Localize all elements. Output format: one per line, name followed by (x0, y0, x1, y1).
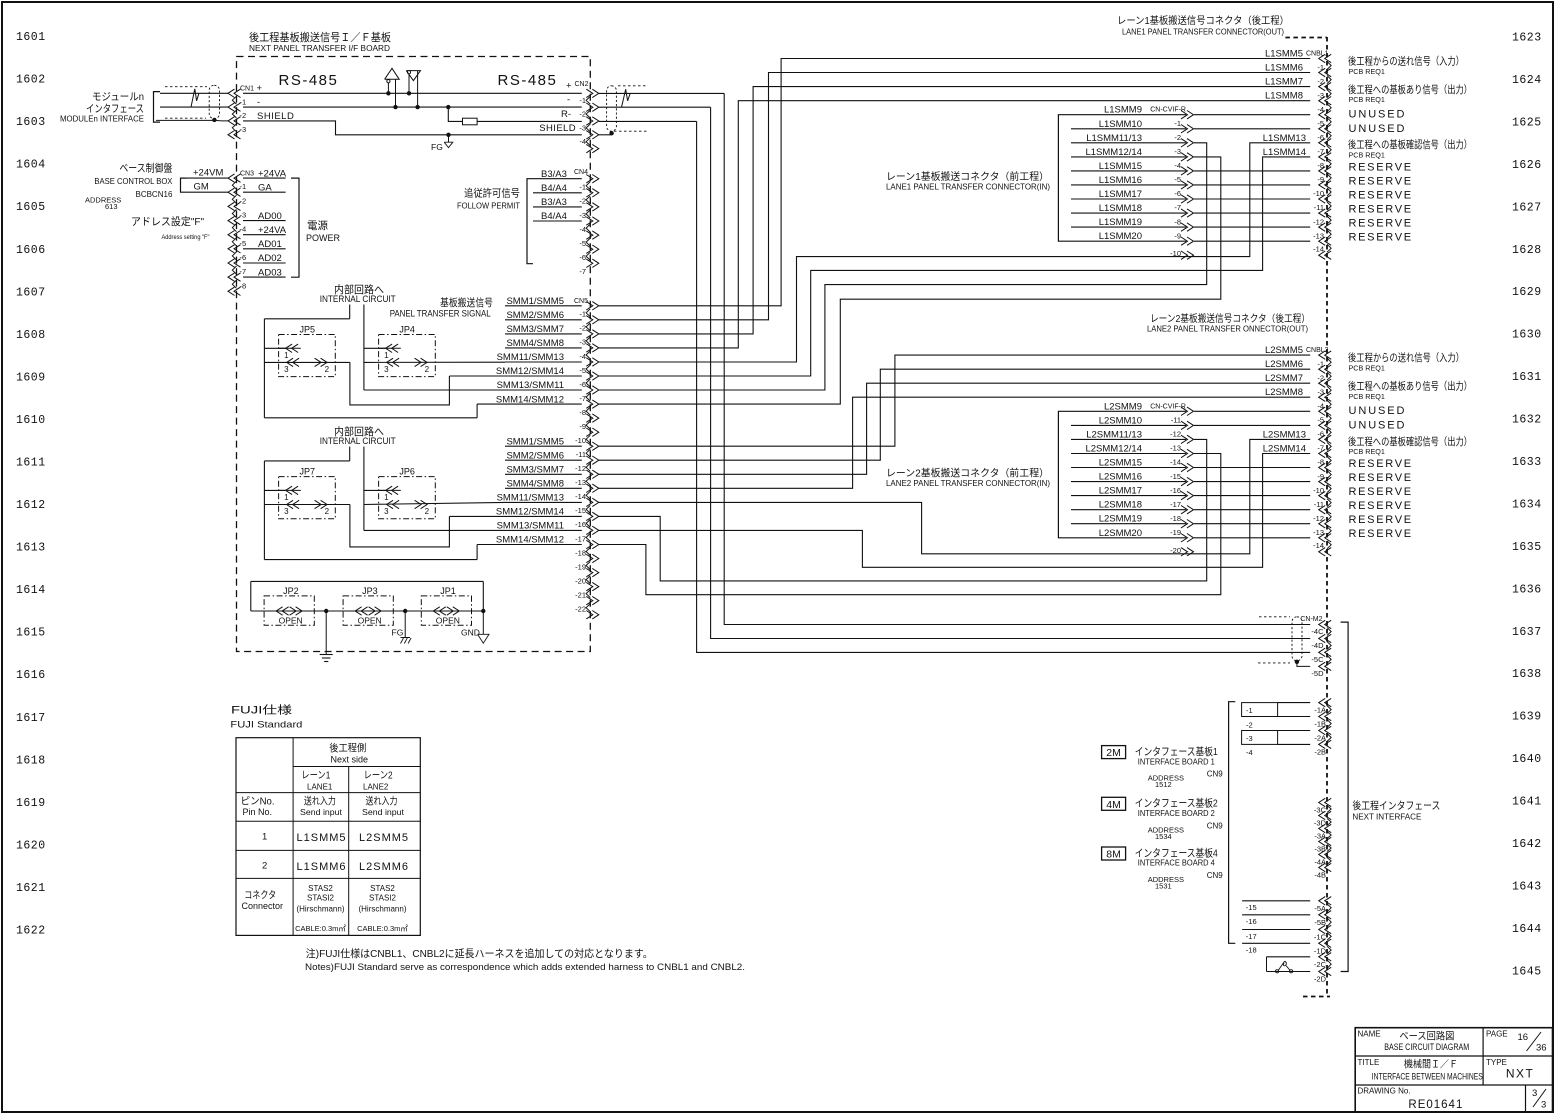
svg-text:-19: -19 (575, 562, 586, 571)
connector CNBL1 body segment (1327, 202, 1331, 210)
svg-text:-4: -4 (1317, 402, 1324, 411)
connector CNBL2 body segment (1327, 527, 1331, 535)
svg-text:RESERVE: RESERVE (1349, 500, 1413, 512)
GND arrow ground (482, 611, 484, 634)
svg-text:-2: -2 (1246, 720, 1253, 729)
svg-text:-2B: -2B (1314, 747, 1326, 756)
svg-text:電源: 電源 (307, 219, 328, 232)
connector CNBL1 pin row 6 (1319, 139, 1326, 147)
svg-text:L2SMM8: L2SMM8 (1265, 387, 1303, 398)
connector CN5 pin row 18 (592, 554, 599, 562)
connector CNBL2 body segment (1327, 414, 1331, 422)
connector CN9 body segment (1327, 706, 1331, 714)
svg-text:FUJI仕様: FUJI仕様 (231, 703, 292, 717)
connector CNBL1 pin row 7 (1319, 153, 1326, 161)
connector CNBL2 pin row 9 (1319, 477, 1326, 485)
connector CNBL2 pin row 12 (1319, 520, 1326, 528)
cable sheath dashed left (165, 86, 207, 88)
svg-text:-8: -8 (1174, 217, 1181, 226)
connector CN2 pin row 4 (592, 144, 599, 152)
svg-text:後工程への基板確認信号（出力）: 後工程への基板確認信号（出力） (1348, 435, 1472, 448)
svg-text:1635: 1635 (1512, 541, 1542, 554)
right margin line numbers 1623-1645 (1512, 32, 1542, 979)
svg-text:B4/A4: B4/A4 (541, 211, 567, 222)
wire JP4 pin1 feed (364, 347, 386, 349)
wire CN-CVIF-R row 4 (1071, 467, 1186, 469)
svg-text:RESERVE: RESERVE (1349, 175, 1413, 187)
wire CN5 SMM11/SMM13 (505, 361, 582, 363)
svg-text:RESERVE: RESERVE (1349, 204, 1413, 216)
svg-text:RS-485: RS-485 (279, 72, 339, 89)
wire lane1 SMM2/SMM6 CN5 to CNBL1 (599, 73, 1310, 320)
wire CN-CVIF-R row 7 (1071, 509, 1186, 511)
svg-text:OPEN: OPEN (436, 616, 460, 626)
junction dot cable shield left (212, 118, 216, 122)
svg-text:1638: 1638 (1512, 668, 1542, 681)
svg-text:1611: 1611 (16, 457, 46, 470)
svg-text:4M: 4M (1106, 799, 1121, 811)
wire lane1 SMM4/SMM8 CN5 to CNBL1 (599, 101, 1310, 348)
svg-text:INTERNAL CIRCUIT: INTERNAL CIRCUIT (320, 436, 396, 446)
svg-text:1606: 1606 (16, 244, 46, 257)
interface board box 8M (1102, 847, 1126, 860)
jumper JP6 pin1 arrows (379, 489, 401, 491)
wire CN-CVIF-R row 1 (1071, 424, 1186, 426)
connector CN3 body segment (232, 252, 236, 260)
svg-text:-4: -4 (1174, 161, 1181, 170)
junction dot FG tap (446, 133, 450, 137)
svg-text:1: 1 (284, 493, 289, 502)
connector CNBL1 pin row 3 (1319, 97, 1326, 105)
cable oval left (209, 85, 219, 118)
wire JP5 pin1 feed (264, 347, 286, 349)
svg-text:-22: -22 (575, 605, 586, 614)
svg-text:-3: -3 (579, 338, 586, 347)
svg-text:1636: 1636 (1512, 583, 1542, 596)
earth ground symbol (325, 611, 327, 655)
connector CN3 body segment (232, 209, 236, 217)
connector CN4 body segment (586, 224, 590, 232)
wire to resistor (448, 107, 462, 121)
wire gnd rail right drop (482, 581, 484, 611)
wire CN5 SMM1/SMM5 lane2 (505, 445, 582, 447)
connector CN3 pin row 5 (228, 245, 235, 253)
svg-text:CN2: CN2 (575, 81, 589, 88)
svg-text:-14: -14 (1170, 458, 1181, 467)
wire lane2 SMM14/SMM12 to L2SMM12/14 (599, 454, 1221, 595)
connector CN-CVIF-R pin (1187, 181, 1194, 189)
svg-text:-11: -11 (1314, 500, 1324, 509)
svg-text:-2: -2 (1317, 373, 1324, 382)
connector CN9 body segment (1327, 933, 1331, 941)
next panel transfer I/F board dashed outline (237, 57, 591, 652)
svg-text:-19: -19 (1170, 528, 1181, 537)
svg-text:1616: 1616 (16, 669, 46, 682)
svg-text:1617: 1617 (16, 712, 46, 725)
svg-text:-3C: -3C (1314, 806, 1327, 815)
svg-text:-10: -10 (1313, 189, 1324, 198)
svg-text:JP2: JP2 (283, 586, 299, 596)
wire CN-CVIF-R row 3 (1071, 156, 1186, 158)
svg-text:1612: 1612 (16, 499, 46, 512)
svg-text:1: 1 (384, 493, 389, 502)
svg-text:-1: -1 (579, 96, 586, 105)
svg-text:RESERVE: RESERVE (1349, 514, 1413, 526)
wire RS485 - rail (243, 106, 582, 108)
wire +24VM (187, 177, 229, 179)
svg-text:L1SMM17: L1SMM17 (1099, 189, 1142, 200)
connector CN5 body segment (586, 562, 590, 570)
connector CN2 body segment (586, 138, 590, 146)
connector CN9 pin 0 (1319, 698, 1326, 706)
wire lane1 SMM11/SMM13 to L1SMM13 (599, 143, 1310, 362)
svg-text:1642: 1642 (1512, 838, 1542, 851)
svg-text:-12: -12 (1313, 217, 1324, 226)
connector CN-CVIF-R pin (1187, 209, 1194, 217)
svg-text:3: 3 (284, 507, 289, 516)
svg-text:LANE1 PANEL TRANSFER CONNECTOR: LANE1 PANEL TRANSFER CONNECTOR(OUT) (1122, 27, 1284, 37)
svg-text:モジュールn: モジュールn (92, 91, 144, 103)
connector CN3 pin row 4 (228, 231, 235, 239)
wire CN5 SMM4/SMM8 (505, 347, 582, 349)
svg-text:L1SMM6: L1SMM6 (1265, 63, 1303, 74)
connector CN9 body segment (1327, 819, 1331, 826)
svg-text:MODULEn INTERFACE: MODULEn INTERFACE (60, 114, 144, 124)
wire lane2 SMM12/SMM14 to L2SMM11/13 (599, 439, 1207, 581)
connector CNBL2 body segment (1327, 372, 1331, 380)
connector CN9 body segment (1327, 832, 1331, 839)
connector CN2 pin row 0 (592, 89, 599, 97)
svg-text:-8: -8 (1317, 458, 1324, 467)
wire CN-CVIF-R row 4 (1071, 170, 1186, 172)
svg-text:1626: 1626 (1512, 159, 1542, 172)
connector CN-M2 pin 1 (1319, 634, 1326, 642)
svg-text:-2: -2 (240, 196, 247, 205)
wire CN-CVIF-R row 3 (1071, 453, 1186, 455)
connector CN5 body segment (586, 590, 590, 598)
resistor R1 (463, 118, 478, 125)
jumper JP5 pin3 arrows (287, 358, 294, 366)
connector CN5 body segment (586, 365, 590, 373)
wire CN-CVIF-R row 0 (1071, 114, 1186, 116)
connector CN9 low pin 4 (1319, 953, 1326, 961)
connector CN5 pin row 3 (592, 344, 599, 352)
wire lane2 SMM11/SMM13 to L2SMM13 (599, 439, 1310, 553)
svg-text:SMM4/SMM8: SMM4/SMM8 (506, 479, 564, 490)
svg-text:-3A: -3A (1314, 832, 1326, 841)
wire CN-CVIF-R row 6 (1071, 198, 1186, 200)
wire row 8 to CNBL1 (1194, 170, 1310, 172)
svg-text:JP1: JP1 (440, 586, 456, 596)
svg-text:613: 613 (105, 202, 118, 211)
connector CN5 body segment (586, 449, 590, 457)
svg-text:-1: -1 (240, 182, 247, 191)
svg-text:L1SMM6: L1SMM6 (297, 861, 347, 873)
svg-text:-13: -13 (1170, 444, 1181, 453)
svg-text:-1: -1 (1317, 359, 1324, 368)
svg-text:SMM2/SMM6: SMM2/SMM6 (506, 310, 564, 321)
wire row 13 to CNBL1 (1194, 240, 1310, 242)
wire CN2 shield external (599, 134, 612, 136)
connector CN-CVIF-R pin (1187, 153, 1194, 161)
wire row 8 to CNBL2 (1194, 467, 1310, 469)
svg-text:1641: 1641 (1512, 796, 1542, 809)
svg-text:FOLLOW PERMIT: FOLLOW PERMIT (457, 201, 520, 211)
svg-text:INTERFACE BOARD 2: INTERFACE BOARD 2 (1138, 808, 1215, 818)
wire CN5 SMM14/SMM12 (477, 403, 582, 405)
connector CN9 pin 1 (1319, 712, 1326, 720)
connector CN-CVIF-R pin (1187, 223, 1194, 231)
interface board box 4M (1102, 797, 1126, 810)
svg-text:3: 3 (1541, 1100, 1546, 1111)
connector CN4 body segment (586, 182, 590, 190)
svg-text:Next side: Next side (331, 755, 369, 765)
connector CN5 pin row 5 (592, 372, 599, 380)
svg-text:CN1: CN1 (240, 86, 254, 93)
svg-text:レーン2: レーン2 (364, 771, 393, 782)
svg-text:-2: -2 (240, 111, 247, 120)
wire CN5 SMM12/SMM14 (449, 375, 581, 377)
svg-text:-5: -5 (1174, 175, 1181, 184)
svg-text:-20: -20 (1170, 546, 1181, 555)
svg-text:L1SMM7: L1SMM7 (1265, 77, 1303, 88)
connector CN5 body segment (586, 463, 590, 471)
svg-text:UNUSED: UNUSED (1349, 419, 1407, 431)
jumper JP5 pin2 arrows (321, 358, 328, 366)
svg-text:-5B: -5B (1314, 918, 1326, 927)
connector CNBL1 body segment (1327, 244, 1331, 252)
svg-text:1: 1 (384, 351, 389, 360)
wire CN5 SMM12/SMM14 lane2 (449, 515, 581, 517)
svg-text:RESERVE: RESERVE (1349, 486, 1413, 498)
svg-text:RESERVE: RESERVE (1349, 472, 1413, 484)
svg-text:-10: -10 (1170, 249, 1181, 258)
connector CN4 pin row 1 (592, 189, 599, 197)
bracket CN4 group (527, 179, 533, 264)
svg-text:CN4: CN4 (574, 169, 588, 176)
connector CN-CVIF-R pin (1187, 139, 1194, 147)
svg-text:-1: -1 (1317, 63, 1324, 72)
svg-text:-7: -7 (1317, 147, 1324, 156)
svg-text:L2SMM9: L2SMM9 (1104, 401, 1142, 412)
svg-text:-3: -3 (1317, 387, 1324, 396)
svg-text:L1SMM19: L1SMM19 (1099, 217, 1142, 228)
wire RS485 + to CN-M2 (724, 93, 1310, 624)
wire rail riser to SMM14/SMM12 (476, 404, 478, 418)
connector CNBL2 pin row 2 (1319, 379, 1326, 387)
svg-text:1608: 1608 (16, 329, 46, 342)
svg-text:STASI2: STASI2 (307, 894, 335, 903)
wire lane2 SMM1/SMM5 CN5 to CNBL2 (599, 355, 1310, 446)
svg-text:L2SMM5: L2SMM5 (1265, 345, 1303, 356)
connector CNBL2 body segment (1327, 442, 1331, 450)
connector CN-CVIF-R pin (1187, 534, 1194, 543)
svg-text:INTERFACE BOARD 1: INTERFACE BOARD 1 (1138, 756, 1215, 766)
svg-text:-: - (567, 94, 570, 105)
connector CNBL2 pin row 1 (1319, 365, 1326, 373)
connector CNBL1 body segment (1327, 188, 1331, 196)
svg-text:レーン1: レーン1 (301, 771, 330, 782)
connector CN9 low pin 2 (1319, 925, 1326, 933)
svg-text:後工程への基板あり信号（出力）: 後工程への基板あり信号（出力） (1348, 83, 1472, 96)
svg-text:SMM4/SMM8: SMM4/SMM8 (506, 338, 564, 349)
svg-text:送れ入力: 送れ入力 (304, 795, 336, 808)
wire lane1 SMM1/SMM5 CN5 to CNBL1 (599, 59, 1310, 306)
connector CNBL1 pin row 10 (1319, 195, 1326, 203)
svg-text:SMM3/SMM7: SMM3/SMM7 (506, 465, 564, 476)
svg-text:NEXT PANEL TRANSFER I/F BOARD: NEXT PANEL TRANSFER I/F BOARD (249, 43, 390, 53)
wire resistor to CN2 R- (477, 120, 582, 122)
svg-text:-11: -11 (1171, 416, 1181, 425)
svg-text:1602: 1602 (16, 74, 46, 87)
wire CN2 - external (599, 106, 711, 108)
connector CNBL2 body segment (1327, 471, 1331, 479)
svg-text:-4: -4 (1246, 748, 1253, 757)
svg-text:-13: -13 (575, 478, 586, 487)
buffer triangle down U2 (406, 71, 420, 81)
svg-text:1607: 1607 (16, 286, 46, 299)
connector CN5 body segment (586, 477, 590, 485)
connector CNBL1 pin row 1 (1319, 68, 1326, 77)
svg-text:追従許可信号: 追従許可信号 (464, 187, 520, 200)
connector CNBL1 pin row 9 (1319, 181, 1326, 189)
wire CN-CVIF-R row 8 (1071, 523, 1186, 525)
connector CN5 body segment (586, 379, 590, 387)
connector CN-CVIF-R pin (1187, 111, 1194, 119)
svg-text:-4: -4 (579, 352, 586, 361)
connector CNBL2 pin row 14 (1319, 548, 1326, 556)
svg-text:L1SMM5: L1SMM5 (297, 832, 347, 844)
svg-text:PAGE: PAGE (1486, 1030, 1508, 1039)
svg-text:-4: -4 (1317, 105, 1324, 114)
svg-text:-15: -15 (575, 506, 586, 515)
svg-text:-2: -2 (1317, 77, 1324, 86)
jumper JP3 arrows (355, 607, 362, 615)
svg-text:JP6: JP6 (399, 466, 415, 476)
svg-text:L2SMM6: L2SMM6 (359, 861, 409, 873)
svg-text:-4B: -4B (1314, 871, 1326, 880)
svg-text:-7: -7 (240, 267, 247, 276)
svg-text:後工程側: 後工程側 (329, 742, 366, 755)
svg-text:-1: -1 (1174, 119, 1181, 128)
svg-text:-6: -6 (1174, 189, 1181, 198)
svg-text:SMM14/SMM12: SMM14/SMM12 (496, 535, 564, 546)
svg-text:1632: 1632 (1512, 414, 1542, 427)
svg-text:-2A: -2A (1314, 734, 1326, 743)
svg-text:PCB REQ1: PCB REQ1 (1349, 364, 1385, 373)
connector CN2 pin row 3 (592, 131, 599, 139)
svg-text:1619: 1619 (16, 797, 46, 810)
connector CN3 body segment (232, 195, 236, 203)
svg-text:1631: 1631 (1512, 371, 1542, 384)
connector CNBL1 body segment (1327, 230, 1331, 238)
svg-text:1639: 1639 (1512, 711, 1542, 724)
wire CN3 +24VA (243, 234, 286, 236)
svg-text:PCB REQ1: PCB REQ1 (1349, 447, 1385, 456)
svg-text:-6: -6 (1317, 133, 1324, 142)
svg-text:-10: -10 (1313, 486, 1324, 495)
svg-text:-3: -3 (240, 211, 247, 220)
wire CN-CVIF-R row 6 (1071, 495, 1186, 497)
junction dot CN-M2 shield (1295, 660, 1299, 664)
jumper JP7 pin2 arrows (321, 500, 328, 508)
svg-text:L2SMM10: L2SMM10 (1099, 415, 1142, 426)
wire internal2 drop A (349, 447, 351, 461)
svg-text:RESERVE: RESERVE (1349, 458, 1413, 470)
svg-text:-2: -2 (579, 197, 586, 206)
svg-text:L2SMM5: L2SMM5 (359, 832, 409, 844)
svg-text:CN-CVIF-R: CN-CVIF-R (1150, 403, 1186, 410)
wire lane2 SMM4/SMM8 CN5 to CNBL2 (599, 397, 1310, 488)
svg-text:R-: R- (561, 109, 571, 120)
svg-text:UNUSED: UNUSED (1349, 123, 1407, 135)
svg-text:-7: -7 (579, 394, 586, 403)
svg-text:3: 3 (1532, 1088, 1537, 1099)
connector CN-CVIF-R pin (1187, 251, 1194, 259)
wire shield routing (243, 121, 582, 135)
connector CNBL1 body segment (1327, 118, 1331, 126)
wire CN4 B3/A3 (533, 206, 582, 208)
wire RS485 R- to CN-M2 (697, 121, 1311, 652)
connector CNBL1 pin row 2 (1319, 82, 1326, 90)
svg-text:Send input: Send input (300, 807, 343, 817)
wire row 13 to CNBL2 (1194, 537, 1310, 539)
wire lane2 jumper rail (264, 559, 477, 561)
connector CN-CVIF-R pin (1187, 449, 1194, 457)
svg-text:L2SMM14: L2SMM14 (1263, 444, 1306, 455)
wire JP5 out link (350, 362, 450, 405)
svg-text:TITLE: TITLE (1358, 1058, 1380, 1067)
connector CN9 body segment (1327, 904, 1331, 912)
wire CN9 row 2 (1278, 730, 1311, 732)
svg-text:-5: -5 (1317, 119, 1324, 128)
svg-text:-7: -7 (579, 267, 586, 276)
wire CN2 R- external (599, 120, 697, 122)
connector CNBL2 pin row 8 (1319, 463, 1326, 471)
connector CNBL1 body segment (1327, 90, 1331, 98)
connector CN-CVIF-R pin (1187, 421, 1194, 429)
svg-text:UNUSED: UNUSED (1349, 405, 1407, 417)
svg-text:L2SMM6: L2SMM6 (1265, 359, 1303, 370)
wire internal2 drop B to SMM13/SMM11 (363, 447, 365, 531)
jumper JP7 pin1 arrows (279, 489, 301, 491)
svg-text:L1SMM20: L1SMM20 (1099, 231, 1142, 242)
wire lane1 SMM3/SMM7 CN5 to CNBL1 (599, 87, 1310, 334)
svg-text:JP7: JP7 (300, 466, 316, 476)
svg-text:2: 2 (425, 507, 430, 516)
svg-text:-11: -11 (1314, 203, 1324, 212)
wire CN-CVIF-R row 8 (1071, 226, 1186, 228)
svg-text:CN9: CN9 (1207, 821, 1224, 830)
svg-text:1643: 1643 (1512, 881, 1542, 894)
cable sheath dashed CN-M2 bottom (1258, 662, 1290, 664)
svg-text:B3/A3: B3/A3 (541, 197, 567, 208)
svg-text:機械間Ｉ／Ｆ: 機械間Ｉ／Ｆ (1404, 1058, 1458, 1071)
svg-text:L1SMM5: L1SMM5 (1265, 49, 1303, 60)
svg-text:-4A: -4A (1314, 858, 1326, 867)
wire CN5 SMM4/SMM8 lane2 (505, 487, 582, 489)
connector CNBL2 pin row 5 (1319, 421, 1326, 429)
svg-text:FUJI Standard: FUJI Standard (230, 720, 302, 731)
svg-text:後工程インタフェース: 後工程インタフェース (1352, 799, 1440, 812)
connector CNBL2 body segment (1327, 386, 1331, 394)
dotted stub top (1285, 37, 1327, 39)
svg-text:16: 16 (1518, 1032, 1529, 1043)
connector CNBL2 pin row 4 (1319, 407, 1326, 415)
bracket interface boards group (1229, 702, 1236, 944)
wire GM (187, 191, 229, 193)
wire CN-CVIF-R row 1 (1071, 128, 1186, 130)
